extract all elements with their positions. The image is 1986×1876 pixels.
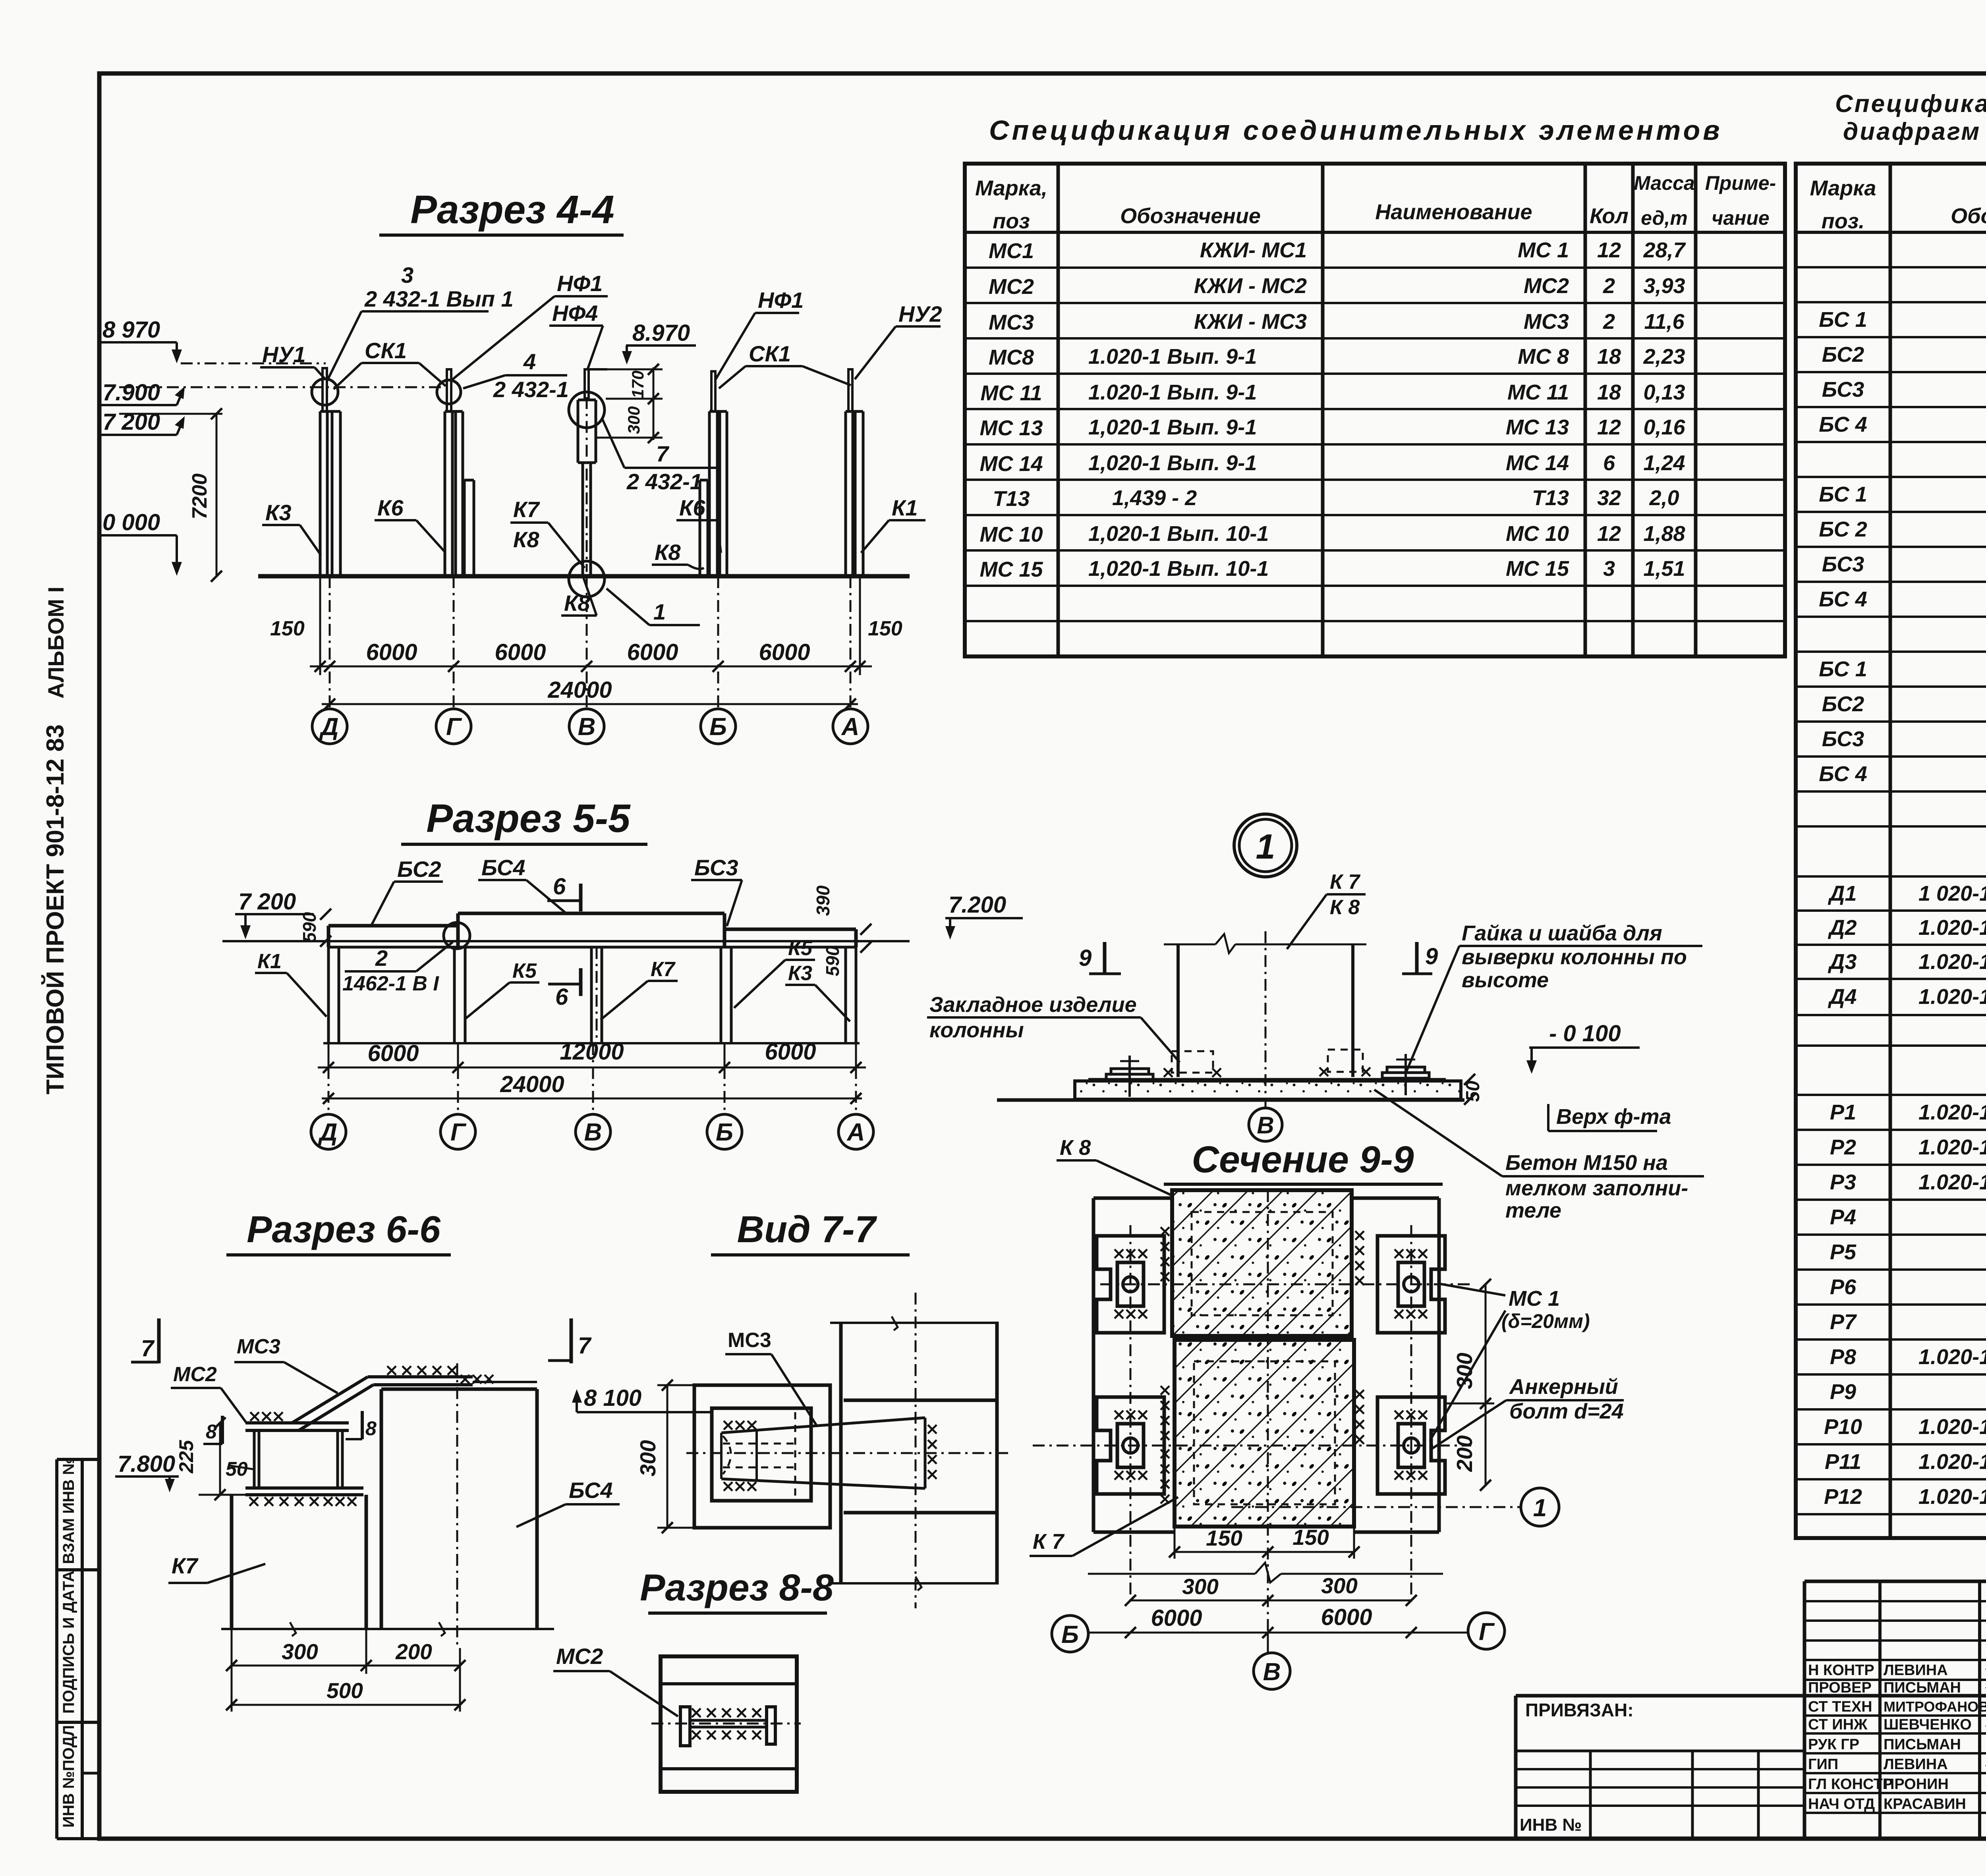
svg-text:2 432-1: 2 432-1: [493, 377, 569, 402]
leader K8: [583, 577, 597, 616]
level line 7.900: [119, 386, 449, 388]
leader K3 right: [815, 985, 850, 1021]
svg-text:МИТРОФАНОВА: МИТРОФАНОВА: [1884, 1698, 1986, 1715]
svg-text:18: 18: [1597, 345, 1621, 369]
svg-text:Марка,: Марка,: [975, 176, 1047, 200]
svg-text:К5: К5: [512, 959, 537, 982]
svg-text:МС3: МС3: [237, 1335, 280, 1358]
base line: [323, 1042, 860, 1044]
svg-text:МС 11: МС 11: [980, 381, 1042, 405]
column K3 axis D: [319, 411, 322, 576]
svg-text:200: 200: [395, 1639, 432, 1664]
svg-text:12: 12: [1597, 238, 1621, 262]
svg-text:11,6: 11,6: [1644, 310, 1685, 334]
svg-text:Р6: Р6: [1830, 1275, 1857, 1299]
dim line 24000: [322, 1098, 862, 1100]
svg-text:СК1: СК1: [749, 341, 791, 366]
svg-text:ед,т: ед,т: [1641, 207, 1688, 229]
dim 300 left: [667, 1385, 668, 1528]
leader NF4: [588, 326, 603, 369]
svg-text:300: 300: [1321, 1573, 1358, 1598]
svg-text:6000: 6000: [627, 639, 678, 665]
svg-text:300: 300: [282, 1639, 318, 1664]
svg-text:чание: чание: [1712, 207, 1770, 229]
svg-text:МС 11: МС 11: [1507, 380, 1569, 404]
svg-text:К5: К5: [788, 937, 813, 960]
svg-text:БС 4: БС 4: [1819, 587, 1867, 611]
svg-text:390: 390: [813, 885, 833, 916]
svg-text:К8: К8: [513, 527, 539, 552]
svg-text:3: 3: [401, 262, 413, 288]
svg-text:1.020-1: 1.020-1: [1918, 1100, 1986, 1124]
svg-text:Закладное изделие: Закладное изделие: [929, 993, 1137, 1017]
dim 300 300: [1130, 1600, 1411, 1602]
svg-text:7.800: 7.800: [118, 1451, 175, 1477]
plate square: [661, 1656, 797, 1792]
svg-text:СТ ТЕХН: СТ ТЕХН: [1808, 1698, 1872, 1715]
leader zakladnoe: [1141, 1017, 1180, 1062]
svg-text:Д2: Д2: [1828, 916, 1857, 940]
svg-text:КЖИ- МС1: КЖИ- МС1: [1200, 238, 1307, 262]
svg-text:поз.: поз.: [1822, 209, 1865, 233]
svg-text:А: А: [841, 713, 860, 741]
svg-text:Р7: Р7: [1830, 1310, 1857, 1334]
leader NF1 second: [715, 313, 755, 380]
svg-text:выверки колонны по: выверки колонны по: [1462, 945, 1687, 969]
svg-text:СТ ИНЖ: СТ ИНЖ: [1808, 1716, 1868, 1733]
svg-text:3,93: 3,93: [1643, 274, 1685, 298]
svg-text:Д4: Д4: [1828, 985, 1857, 1009]
node ring top of K7: [569, 392, 605, 428]
foundation block: [1075, 1081, 1461, 1099]
welds on wedge: [724, 1421, 756, 1430]
leader MS2: [221, 1388, 247, 1424]
svg-text:0,16: 0,16: [1643, 415, 1685, 439]
svg-text:Р8: Р8: [1830, 1345, 1856, 1369]
svg-text:Обозначение: Обозначение: [1951, 204, 1986, 228]
svg-text:высоте: высоте: [1462, 968, 1549, 992]
svg-text:28,7: 28,7: [1643, 238, 1686, 262]
svg-text:СК1: СК1: [365, 338, 407, 363]
svg-text:ПРОНИН: ПРОНИН: [1884, 1776, 1949, 1793]
column G: [453, 947, 456, 1043]
svg-text:Р10: Р10: [1824, 1415, 1862, 1439]
grid circle B: [1052, 1615, 1088, 1652]
svg-text:БС3: БС3: [1822, 727, 1864, 751]
svg-text:К7: К7: [513, 497, 540, 522]
base plate left: [1111, 1069, 1149, 1074]
anchor bolt right: [1404, 1054, 1407, 1095]
column K7 axis V upper box: [577, 400, 580, 463]
svg-text:НФ4: НФ4: [552, 301, 598, 326]
svg-text:12: 12: [1597, 522, 1621, 546]
svg-text:1.020-1: 1.020-1: [1918, 916, 1986, 940]
svg-text:1462-1 В I: 1462-1 В I: [342, 972, 439, 995]
svg-text:РУК ГР: РУК ГР: [1808, 1736, 1859, 1753]
svg-text:К8: К8: [655, 540, 681, 565]
svg-text:0,13: 0,13: [1643, 380, 1685, 404]
stamp column box: [55, 1459, 58, 1839]
grid circle V: [569, 709, 604, 744]
column B: [720, 947, 723, 1043]
svg-text:БС3: БС3: [694, 855, 738, 880]
svg-text:6: 6: [1603, 451, 1615, 475]
svg-text:Г: Г: [1479, 1618, 1495, 1646]
svg-text:В: В: [578, 713, 596, 741]
column K1 axis A: [844, 411, 847, 576]
svg-text:К1: К1: [257, 950, 282, 973]
svg-text:0 000: 0 000: [102, 510, 160, 535]
svg-text:300: 300: [624, 406, 643, 434]
svg-text:Д: Д: [318, 1119, 338, 1146]
dims below: [328, 1043, 330, 1072]
svg-text:Разрез 5-5: Разрез 5-5: [426, 796, 631, 841]
grid circle V: [576, 1114, 610, 1149]
svg-text:МС 8: МС 8: [1518, 345, 1569, 369]
welds web: [692, 1708, 761, 1717]
leader beton: [1374, 1090, 1502, 1176]
beam bottom line: [222, 940, 910, 942]
vertical axis V: [1267, 1190, 1269, 1654]
svg-text:ПРОВЕР: ПРОВЕР: [1808, 1679, 1872, 1696]
leader NU2: [855, 326, 896, 379]
leader BS2: [371, 882, 394, 925]
dashed embed top: [1192, 1212, 1333, 1315]
long tie line with break: [1088, 1573, 1255, 1575]
svg-text:ЛЕВИНА: ЛЕВИНА: [1884, 1662, 1948, 1679]
bolt TR: [1377, 1236, 1445, 1333]
riser on K7 top: [585, 369, 589, 400]
K8 post at axis B: [699, 480, 701, 576]
column V: [590, 947, 593, 1043]
svg-text:Р11: Р11: [1825, 1450, 1861, 1474]
svg-text:Разрез 4-4: Разрез 4-4: [410, 187, 614, 232]
svg-text:КЖИ - МС3: КЖИ - МС3: [1194, 310, 1307, 334]
x marks: [1164, 1067, 1370, 1077]
svg-text:НФ1: НФ1: [758, 288, 804, 313]
dim line 6000 12000 6000: [318, 1067, 866, 1069]
svg-text:К6: К6: [679, 495, 705, 520]
svg-text:Б: Б: [1061, 1621, 1079, 1648]
leaders SK1 second: [719, 366, 746, 388]
grid circle G: [436, 709, 471, 744]
svg-text:6000: 6000: [367, 1040, 419, 1066]
base plate top line: [1088, 1078, 1446, 1081]
svg-text:6000: 6000: [759, 639, 810, 665]
svg-text:225: 225: [175, 1440, 197, 1474]
svg-text:1,020-1 Вып. 9-1: 1,020-1 Вып. 9-1: [1088, 451, 1257, 475]
grid circle V: [1265, 1100, 1267, 1108]
center lines: [915, 1293, 917, 1608]
column K6 axis G: [444, 411, 446, 576]
inner square: [712, 1408, 811, 1501]
svg-text:1,51: 1,51: [1643, 557, 1685, 581]
svg-text:2: 2: [1603, 310, 1615, 334]
leader ankerny: [1432, 1400, 1506, 1449]
beam end verticals: [327, 926, 330, 947]
flange left: [680, 1707, 690, 1746]
svg-text:ПИСЬМАН: ПИСЬМАН: [1884, 1736, 1961, 1753]
svg-text:МС 13: МС 13: [1506, 415, 1569, 439]
dim line 1: [310, 666, 872, 668]
svg-text:(δ=20мм): (δ=20мм): [1501, 1310, 1590, 1332]
svg-text:7: 7: [656, 441, 670, 466]
svg-text:Г: Г: [450, 1119, 467, 1146]
dim right 300 200: [1485, 1284, 1487, 1485]
leader NU1: [315, 367, 325, 379]
svg-text:Верх ф-та: Верх ф-та: [1556, 1105, 1671, 1129]
leader 1: [607, 589, 649, 625]
leader K8 near B: [688, 565, 704, 569]
svg-text:МС1: МС1: [989, 239, 1034, 263]
anchor bolt left: [1128, 1056, 1131, 1097]
vertical axes bolts: [1130, 1225, 1132, 1606]
svg-text:7 200: 7 200: [102, 409, 160, 435]
dashed embed bottom: [1194, 1361, 1335, 1504]
svg-text:В: В: [1257, 1112, 1274, 1139]
svg-text:теле: теле: [1505, 1199, 1561, 1222]
leader K1: [861, 520, 889, 553]
svg-text:7 200: 7 200: [238, 889, 296, 915]
svg-text:Б: Б: [716, 1119, 733, 1146]
column A: [844, 947, 847, 1043]
svg-text:1.020-1: 1.020-1: [1918, 1415, 1986, 1439]
svg-text:диафрагм жесткости и ригелей: диафрагм жесткости и ригелей.: [1843, 118, 1986, 145]
axis 1 line: [1231, 1506, 1520, 1508]
center line bolts bottom: [1033, 1445, 1471, 1447]
svg-text:К6: К6: [377, 495, 404, 520]
svg-text:Гайка и шайба для: Гайка и шайба для: [1462, 921, 1662, 945]
svg-text:7: 7: [578, 1333, 592, 1359]
leader K3: [300, 525, 321, 555]
vertical dim 7200: [216, 414, 218, 576]
leader K7K8: [1287, 894, 1327, 949]
svg-text:К1: К1: [892, 495, 918, 520]
dashed bolt shape: [723, 1412, 795, 1498]
svg-text:1,24: 1,24: [1643, 451, 1685, 475]
svg-text:Разрез 6-6: Разрез 6-6: [247, 1208, 441, 1251]
svg-text:2 432-1 Вып 1: 2 432-1 Вып 1: [364, 286, 514, 311]
svg-text:МС8: МС8: [989, 345, 1034, 369]
svg-text:1,020-1 Вып. 10-1: 1,020-1 Вып. 10-1: [1088, 522, 1269, 546]
svg-text:6000: 6000: [765, 1039, 816, 1065]
svg-text:1,020-1 Вып. 10-1: 1,020-1 Вып. 10-1: [1088, 557, 1269, 581]
svg-text:ПОДПИСЬ И ДАТА: ПОДПИСЬ И ДАТА: [60, 1571, 77, 1714]
svg-text:болт d=24: болт d=24: [1509, 1399, 1624, 1423]
svg-text:МС 10: МС 10: [1506, 522, 1569, 546]
svg-text:6: 6: [555, 984, 568, 1010]
svg-text:БС2: БС2: [1822, 343, 1864, 367]
svg-text:Т13: Т13: [993, 487, 1030, 511]
svg-text:300: 300: [1452, 1353, 1477, 1389]
svg-text:БС4: БС4: [481, 855, 525, 880]
svg-text:К3: К3: [788, 962, 812, 985]
flange right: [767, 1707, 775, 1744]
privyazan block: [1514, 1696, 1518, 1839]
grid circle D: [311, 1114, 346, 1149]
level line 8.970: [181, 363, 326, 365]
bottom dims: [231, 1629, 233, 1712]
ground line: [997, 1098, 1464, 1102]
leader BS3: [727, 880, 742, 926]
svg-text:МС2: МС2: [556, 1644, 603, 1669]
svg-text:МС 14: МС 14: [1506, 451, 1569, 475]
svg-text:колонны: колонны: [929, 1018, 1024, 1042]
svg-text:24000: 24000: [547, 677, 612, 703]
svg-text:170: 170: [628, 371, 647, 398]
svg-text:Масса: Масса: [1634, 172, 1695, 194]
weld columns left of squares: [1161, 1227, 1169, 1281]
svg-text:МС2: МС2: [989, 275, 1034, 299]
svg-text:К 7: К 7: [1330, 870, 1360, 894]
leader MS3: [771, 1354, 816, 1425]
svg-text:Наименование: Наименование: [1375, 200, 1532, 224]
dim 6000 6000: [1088, 1632, 1468, 1634]
svg-text:БС 1: БС 1: [1819, 657, 1867, 681]
grid circle B: [701, 709, 736, 744]
svg-text:В: В: [584, 1119, 602, 1146]
upright NF on col G: [447, 369, 451, 411]
stub column: [253, 1430, 256, 1488]
break marks: [892, 1316, 898, 1330]
svg-text:300: 300: [1182, 1574, 1219, 1599]
svg-text:МС 1: МС 1: [1509, 1287, 1560, 1310]
svg-text:Н КОНТР: Н КОНТР: [1808, 1662, 1874, 1679]
svg-text:Р3: Р3: [1830, 1170, 1856, 1194]
svg-text:МС3: МС3: [989, 311, 1034, 334]
svg-text:Р9: Р9: [1830, 1380, 1856, 1404]
svg-text:8 100: 8 100: [584, 1385, 641, 1411]
svg-text:150: 150: [1206, 1526, 1242, 1550]
stub base plate: [245, 1486, 363, 1490]
upright NU2 on col A: [848, 369, 852, 411]
svg-text:32: 32: [1597, 486, 1621, 510]
leader K5: [466, 982, 510, 1019]
K8 post at axis G: [463, 480, 466, 576]
svg-text:КЖИ - МС2: КЖИ - МС2: [1194, 274, 1307, 298]
bottom dim 150 150: [1174, 1527, 1176, 1559]
svg-text:МС 15: МС 15: [1506, 557, 1569, 581]
table grid: [1796, 164, 1986, 1538]
leader K7K8: [548, 523, 585, 568]
svg-text:1.020-1: 1.020-1: [1918, 1345, 1986, 1369]
svg-text:1: 1: [1533, 1494, 1547, 1522]
center line: [651, 1723, 801, 1725]
svg-text:БС 1: БС 1: [1819, 483, 1867, 506]
svg-text:1: 1: [1256, 827, 1275, 866]
svg-text:Р2: Р2: [1830, 1135, 1856, 1159]
svg-text:1.020-1: 1.020-1: [1918, 950, 1986, 974]
column D: [327, 947, 330, 1043]
break marks bottom: [290, 1622, 296, 1636]
svg-text:Разрез 8-8: Разрез 8-8: [640, 1567, 834, 1609]
small dims 170 300: [653, 367, 655, 440]
leader 4: [463, 375, 505, 388]
svg-text:ЛЕВИНА: ЛЕВИНА: [1884, 1756, 1948, 1773]
svg-text:1,020-1 Вып. 9-1: 1,020-1 Вып. 9-1: [1088, 415, 1257, 439]
leader K6: [416, 520, 446, 553]
svg-text:ГИП: ГИП: [1808, 1756, 1838, 1773]
svg-text:Р12: Р12: [1824, 1485, 1862, 1509]
svg-text:МС 14: МС 14: [979, 452, 1043, 476]
svg-text:590: 590: [822, 946, 843, 976]
leader K1: [287, 973, 326, 1017]
svg-text:МС3: МС3: [728, 1329, 771, 1352]
center line col V: [586, 397, 588, 572]
roof beam right top: [724, 928, 856, 931]
svg-text:НУ2: НУ2: [898, 301, 942, 326]
column K7 body: [230, 1495, 234, 1629]
svg-text:1.020-1: 1.020-1: [1918, 1170, 1986, 1194]
svg-text:Д1: Д1: [1828, 882, 1857, 905]
svg-text:К 8: К 8: [1060, 1136, 1091, 1160]
leader 7: [602, 418, 624, 468]
svg-text:12: 12: [1597, 415, 1621, 439]
svg-text:Вид 7-7: Вид 7-7: [737, 1208, 877, 1251]
svg-text:ИНВ №: ИНВ №: [1520, 1815, 1582, 1835]
svg-text:МС 13: МС 13: [979, 416, 1043, 440]
axis to V circle: [1267, 1633, 1269, 1654]
svg-text:50: 50: [226, 1458, 248, 1480]
column K7 plan: [839, 1322, 843, 1585]
svg-text:БС2: БС2: [397, 857, 441, 882]
roof beam left top: [328, 924, 458, 928]
svg-text:7.900: 7.900: [102, 380, 160, 405]
svg-text:Сечение 9-9: Сечение 9-9: [1192, 1139, 1414, 1181]
svg-text:200: 200: [1452, 1435, 1477, 1472]
svg-text:БС2: БС2: [1822, 692, 1864, 716]
svg-text:поз: поз: [993, 209, 1030, 233]
svg-text:БС 4: БС 4: [1819, 413, 1867, 436]
label verh f-ta: [1547, 1104, 1549, 1131]
svg-text:БС4: БС4: [569, 1478, 613, 1503]
grid circle G: [440, 1114, 475, 1149]
svg-text:8 970: 8 970: [102, 317, 160, 343]
leaders SK1: [334, 363, 361, 389]
svg-text:Р1: Р1: [1830, 1100, 1856, 1124]
svg-text:2 432-1: 2 432-1: [626, 469, 702, 494]
svg-text:МС2: МС2: [173, 1363, 217, 1386]
grid circle D: [312, 709, 347, 744]
leader K6 second: [717, 520, 721, 553]
svg-text:БС 4: БС 4: [1819, 762, 1867, 786]
top break line: [1164, 944, 1215, 946]
embedded plate dashed right: [1328, 1050, 1363, 1072]
svg-text:1.020-1: 1.020-1: [1918, 985, 1986, 1009]
leader K7: [601, 981, 648, 1020]
svg-text:ПИСЬМАН: ПИСЬМАН: [1884, 1679, 1961, 1696]
svg-text:1,88: 1,88: [1643, 522, 1685, 546]
ring SK1 on col D: [312, 379, 338, 405]
node circle 1: [1234, 814, 1297, 877]
leader MS2: [610, 1671, 678, 1716]
svg-text:590: 590: [299, 912, 320, 942]
svg-text:6000: 6000: [1151, 1605, 1202, 1631]
center line bolts top: [1100, 1283, 1471, 1285]
grid circle A: [833, 709, 868, 744]
svg-text:Г: Г: [446, 713, 462, 741]
svg-text:7.200: 7.200: [949, 892, 1006, 918]
column K7 axis V lower shaft: [582, 463, 584, 576]
ring SK1 on col G: [437, 380, 461, 404]
roof beam middle top: [458, 912, 724, 915]
svg-text:3: 3: [1603, 557, 1615, 581]
svg-text:МС 15: МС 15: [979, 558, 1043, 581]
signature table outline: [1803, 1581, 1806, 1839]
bolt TL: [1097, 1236, 1164, 1333]
svg-text:7: 7: [141, 1336, 155, 1361]
svg-text:Спецификация железобетонных: Спецификация железобетонных стропильных …: [1835, 90, 1986, 118]
